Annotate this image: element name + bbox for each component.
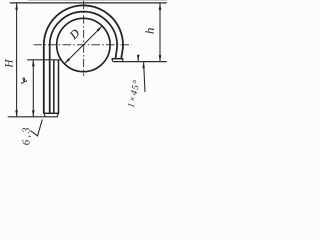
dimension line h	[159, 3, 161, 62]
D upper-right arrowhead	[97, 26, 103, 32]
leg inner line 4	[58, 60, 60, 113]
chamfer leader up arrow	[142, 62, 145, 68]
horizontal centerline	[34, 44, 132, 46]
vertical centerline	[83, 1, 85, 76]
h top arrowhead	[159, 3, 162, 10]
svg-text:H: H	[3, 59, 15, 69]
l bottom arrowhead	[32, 110, 35, 117]
clamp band outer contour with left leg	[44, 5, 123, 113]
svg-text:6,3: 6,3	[20, 126, 32, 146]
label l cursive ell	[21, 78, 27, 83]
clamp band inner contour with left leg inner line	[50, 12, 117, 114]
h bottom arrowhead	[159, 55, 162, 62]
H top arrowhead	[15, 3, 18, 10]
dimension line D diagonal	[65, 26, 103, 64]
dimension line l	[32, 60, 34, 117]
top extension line	[10, 2, 167, 4]
leg bottom chamfer right diagonal	[57, 113, 59, 117]
leg end face and bottom extension line	[8, 116, 58, 118]
dimension line H	[16, 3, 18, 117]
band tip chamfer left diagonal	[112, 59, 113, 62]
band tip chamfer shoulder	[112, 58, 124, 60]
roughness tick mark	[31, 120, 43, 136]
pipe circle	[57, 18, 110, 71]
scan artifact top edge line	[28, 0, 167, 2]
leg bottom chamfer left diagonal	[44, 113, 46, 117]
D lower-left arrowhead	[65, 58, 71, 64]
leg bottom chamfer shoulder	[43, 112, 59, 114]
shelf line and extension for dim l	[27, 59, 61, 61]
chamfer dimension down arrow	[137, 55, 139, 62]
band tip chamfer right diagonal	[121, 59, 124, 62]
leg inner line 3	[53, 60, 55, 114]
l top arrowhead	[32, 60, 35, 67]
H bottom arrowhead	[15, 110, 18, 117]
band tip end face and extension line for dim h	[113, 61, 167, 63]
svg-text:h: h	[142, 28, 157, 35]
